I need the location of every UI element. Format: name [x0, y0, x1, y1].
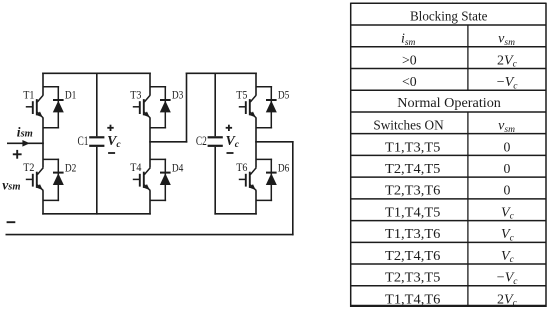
transistor T5: [239, 95, 256, 118]
svg-text:<0: <0: [402, 74, 417, 89]
svg-text:T5: T5: [236, 88, 247, 102]
svg-text:T1,T4,T5: T1,T4,T5: [385, 204, 440, 219]
svg-text:D1: D1: [65, 88, 77, 102]
wire top rail left (leg1 top - C1 top - leg2 top): [42, 72, 151, 74]
diode D1: [43, 86, 64, 128]
label − polarity of C2: [227, 152, 234, 154]
svg-text:Normal Operation: Normal Operation: [397, 95, 501, 110]
diode D2: [43, 159, 64, 201]
label + polarity of C2: [226, 125, 232, 131]
svg-text:D5: D5: [278, 88, 290, 102]
svg-text:vsm: vsm: [498, 32, 515, 48]
svg-text:T1,T3,T5: T1,T3,T5: [385, 139, 440, 154]
wire leg3 midpoint to output drop: [255, 141, 293, 143]
capacitor C1: [89, 73, 104, 215]
label + polarity of C1: [107, 125, 113, 131]
wire leg1 vertical segments: [42, 73, 44, 215]
svg-text:T6: T6: [236, 160, 247, 174]
transistor T2: [26, 168, 44, 191]
label − terminal of v_sm: [7, 221, 16, 223]
svg-text:Blocking State: Blocking State: [410, 8, 488, 23]
diode D4: [150, 159, 171, 201]
svg-text:2Vc: 2Vc: [497, 292, 518, 308]
label + terminal of v_sm: [13, 150, 22, 159]
label − polarity of C1: [108, 152, 115, 154]
svg-text:T4: T4: [130, 160, 141, 174]
wire long bottom return to v_sm negative terminal: [6, 234, 294, 236]
svg-text:C2: C2: [196, 134, 207, 148]
svg-text:ism: ism: [17, 124, 33, 139]
svg-text:T1,T3,T6: T1,T3,T6: [385, 226, 440, 241]
svg-text:Vc: Vc: [501, 227, 515, 243]
svg-text:0: 0: [503, 139, 510, 154]
svg-text:Vc: Vc: [107, 134, 121, 150]
svg-text:Vc: Vc: [226, 134, 240, 150]
svg-text:T1: T1: [23, 88, 34, 102]
table horizontal rules: [351, 25, 546, 286]
wire leg2 midpoint to riser: [149, 141, 187, 143]
diode D3: [150, 86, 171, 128]
arrowhead of input current i_sm: [22, 140, 29, 147]
svg-text:D3: D3: [172, 88, 184, 102]
svg-text:C1: C1: [78, 134, 89, 148]
svg-text:T3: T3: [130, 88, 141, 102]
svg-text:D4: D4: [172, 160, 184, 174]
diode D6: [256, 159, 277, 201]
transistor T1: [26, 95, 44, 118]
svg-text:>0: >0: [402, 52, 417, 67]
svg-text:Vc: Vc: [501, 205, 515, 221]
wire bottom rail right (C2 bottom - leg3 bottom): [214, 213, 256, 215]
svg-text:T2,T4,T5: T2,T4,T5: [385, 161, 440, 176]
diode D5: [256, 86, 277, 128]
table outer border: [351, 3, 546, 307]
svg-text:T2,T4,T6: T2,T4,T6: [385, 248, 440, 263]
svg-text:T2,T3,T5: T2,T3,T5: [385, 270, 440, 285]
wire top rail right (node between T3-T4 via riser - C2 top - leg3 top): [186, 72, 257, 74]
table column divider: [467, 25, 469, 306]
svg-text:0: 0: [503, 183, 510, 198]
svg-text:vsm: vsm: [498, 119, 515, 135]
svg-text:T2: T2: [23, 160, 34, 174]
svg-text:0: 0: [503, 161, 510, 176]
svg-text:ism: ism: [401, 32, 416, 48]
svg-text:vsm: vsm: [2, 177, 20, 192]
svg-text:−Vc: −Vc: [497, 75, 518, 91]
wire leg3 vertical segments: [255, 73, 257, 215]
wire riser from top rail right down to leg2 midpoint: [186, 73, 188, 143]
svg-text:2Vc: 2Vc: [497, 53, 518, 69]
capacitor C2: [208, 73, 223, 215]
wire bottom rail left (leg1 bottom - C1 bottom - leg2 bottom): [42, 213, 151, 215]
svg-text:D6: D6: [278, 160, 290, 174]
transistor T4: [133, 168, 151, 191]
svg-text:T2,T3,T6: T2,T3,T6: [385, 183, 440, 198]
transistor T3: [133, 95, 151, 118]
wire leg2 vertical segments: [149, 73, 151, 215]
wire output drop (right side vertical): [292, 141, 294, 235]
svg-text:−Vc: −Vc: [497, 271, 518, 287]
svg-text:D2: D2: [65, 160, 77, 174]
svg-text:Vc: Vc: [501, 249, 515, 265]
svg-text:Switches ON: Switches ON: [373, 118, 443, 133]
wire input i_sm to leg1 midpoint: [7, 142, 44, 144]
transistor T6: [239, 168, 256, 191]
svg-text:T1,T4,T6: T1,T4,T6: [385, 291, 440, 306]
